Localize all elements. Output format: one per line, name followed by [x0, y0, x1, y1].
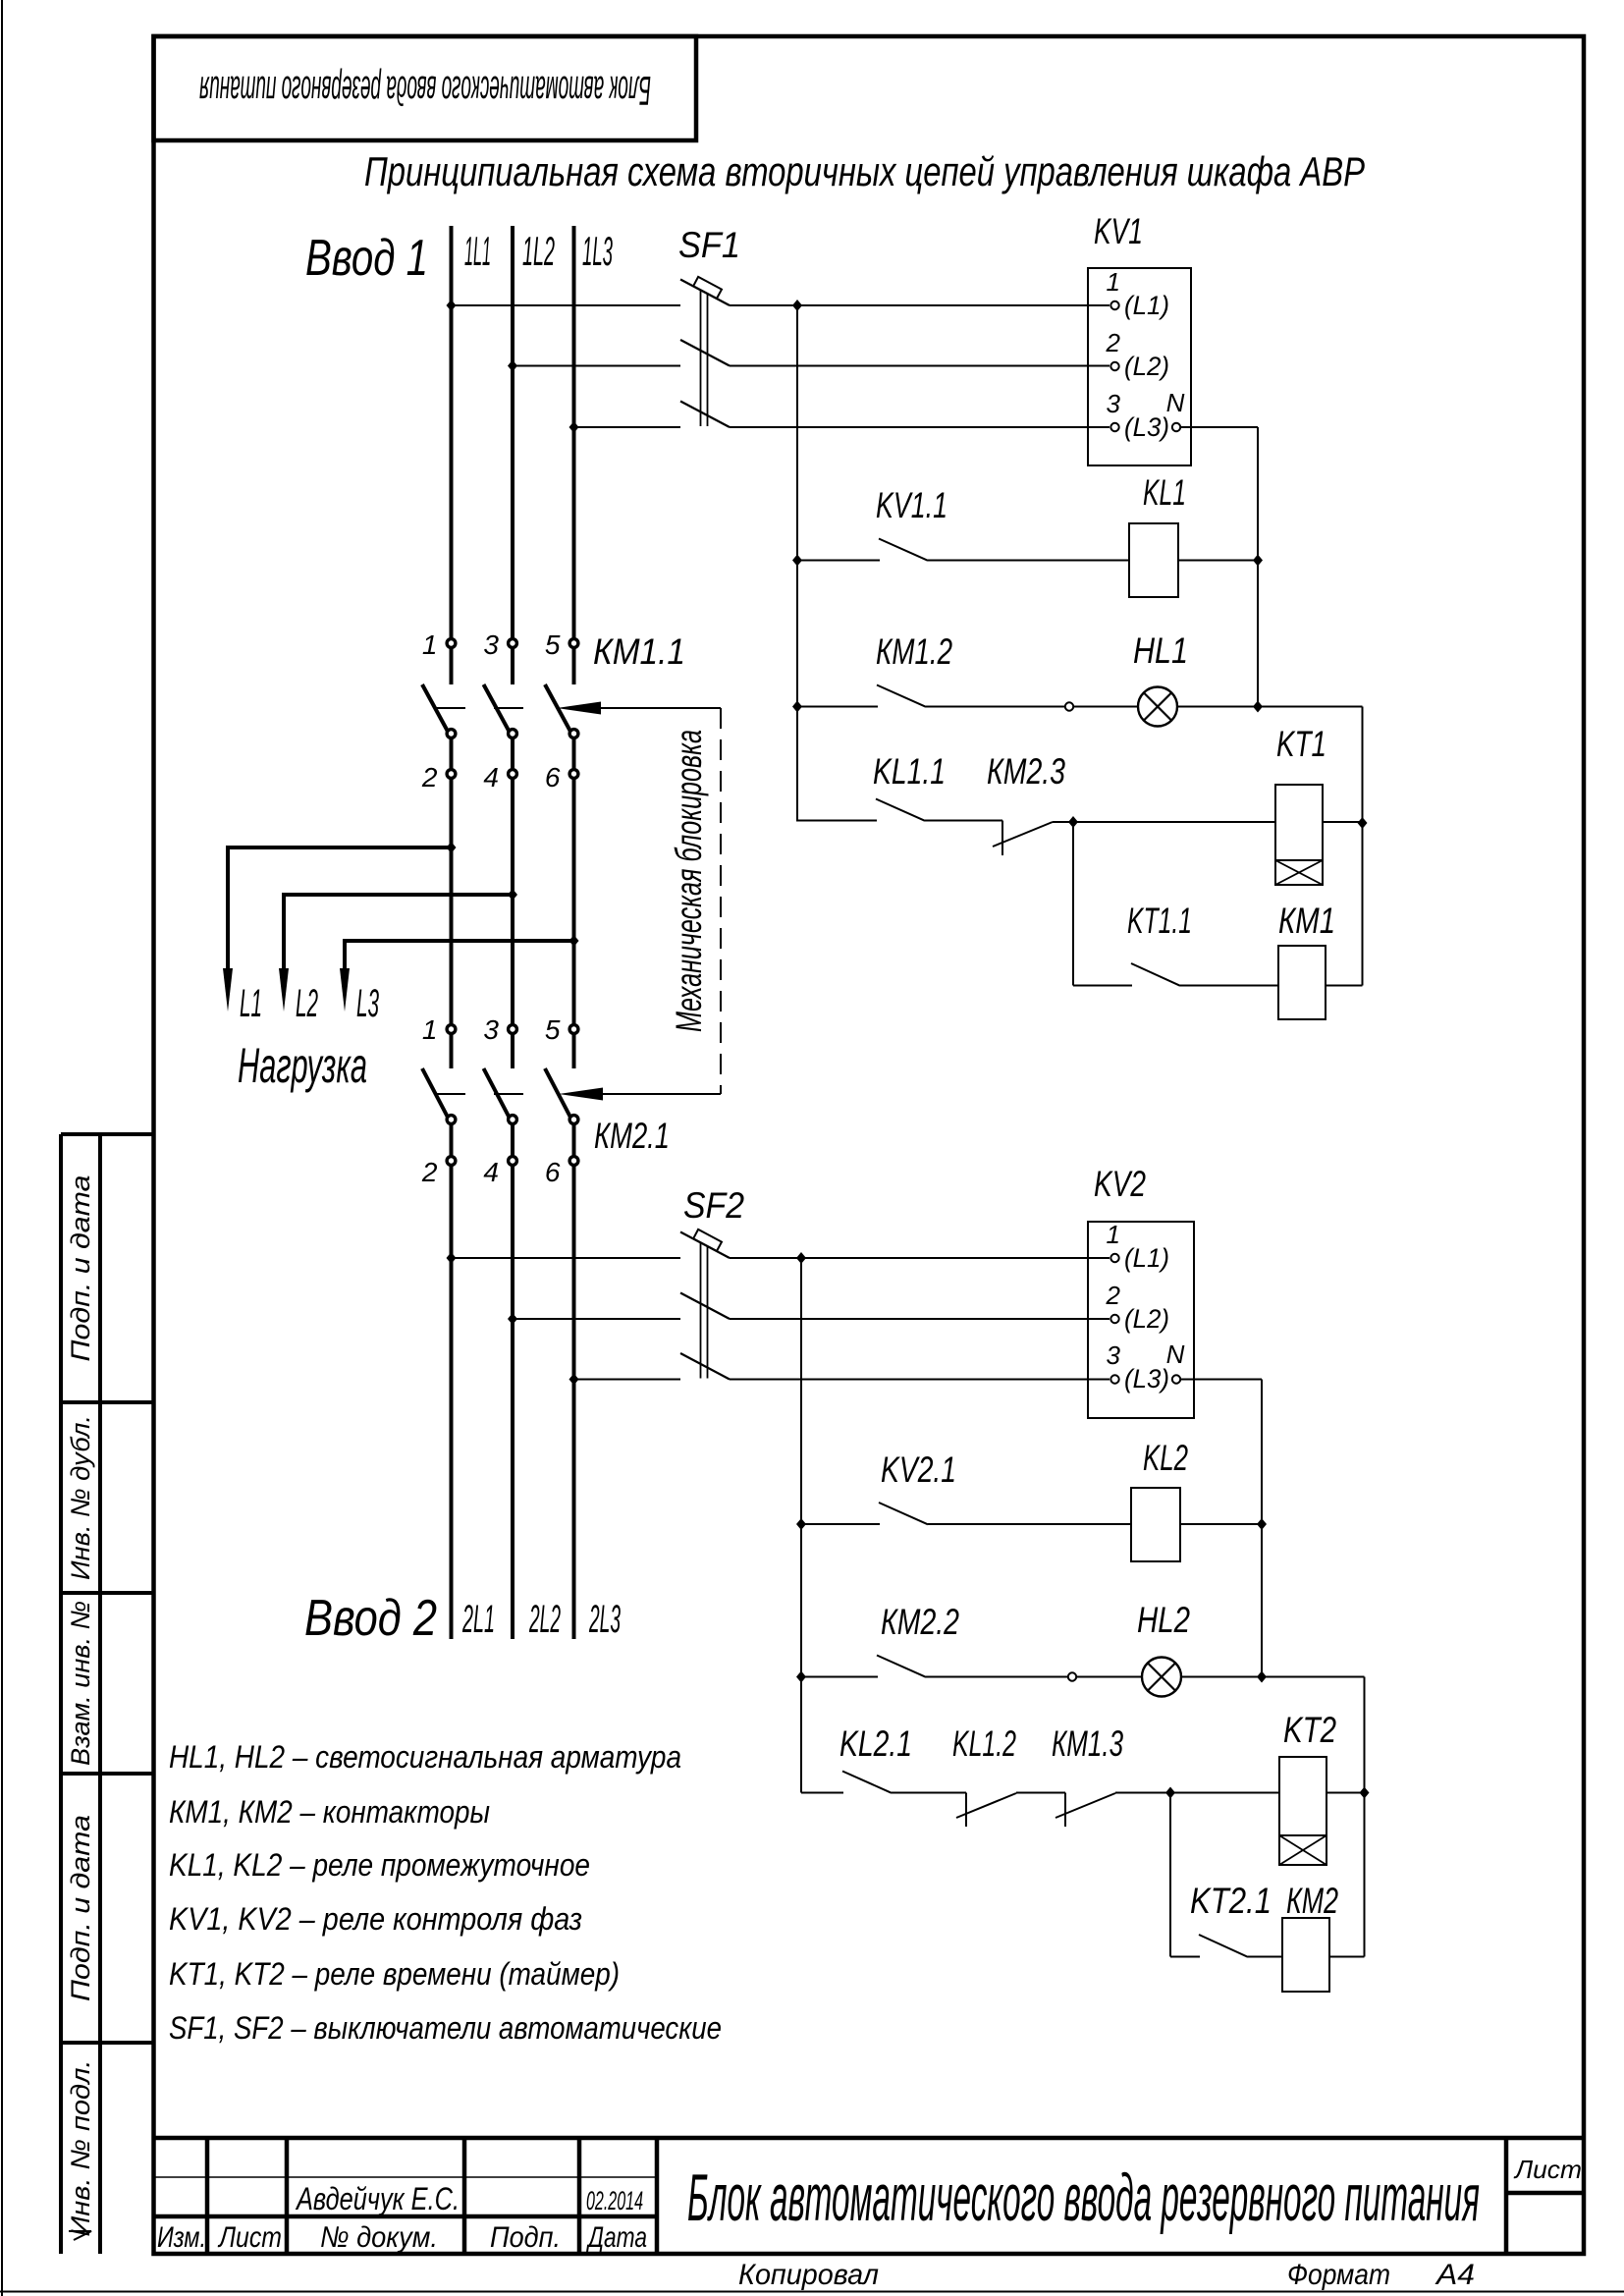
wire KV1.1 to relay coil KL1	[928, 560, 1129, 562]
wire left rail upper (L1 down to KL1.1 row)	[796, 305, 798, 822]
svg-text:KT1, KT2 – реле времени (тайме: KT1, KT2 – реле времени (таймер)	[169, 1956, 620, 1992]
svg-text:Подп. и дата: Подп. и дата	[66, 1815, 95, 2001]
svg-text:Подп.: Подп.	[490, 2221, 561, 2254]
svg-text:KL1.1: KL1.1	[873, 751, 946, 792]
svg-text:Формат: Формат	[1287, 2259, 1390, 2291]
wire left rail to contact KM1.2	[797, 706, 878, 708]
svg-text:HL1: HL1	[1133, 630, 1188, 671]
wire load tap L3 vertical	[343, 939, 347, 970]
wire KT2.1 to contactor coil KM2	[1248, 1956, 1282, 1958]
svg-text:Блок автоматического ввода рез: Блок автоматического ввода резервного пи…	[687, 2160, 1480, 2235]
node bus2L1/SF2 junction	[447, 1252, 457, 1264]
contactor KM2.1 pole3 terminal rings	[569, 1025, 578, 1034]
svg-text:КМ1.2: КМ1.2	[876, 631, 952, 672]
svg-text:4: 4	[483, 1157, 499, 1187]
svg-text:Подп. и дата: Подп. и дата	[66, 1175, 95, 1362]
svg-text:KV1: KV1	[1094, 211, 1143, 251]
mechanical interlock line upper	[599, 707, 721, 709]
SF1 linkage bars	[700, 291, 702, 426]
mechanical interlock arrow lower	[559, 1088, 603, 1101]
svg-text:02.2014: 02.2014	[586, 2186, 643, 2215]
SF2 pole3 blade	[680, 1353, 730, 1380]
wire bus1L2 to SF1	[513, 365, 680, 367]
svg-text:(L1): (L1)	[1124, 1243, 1169, 1273]
svg-text:KL1.2: KL1.2	[952, 1723, 1016, 1764]
wire SF2 to KV2 pin1	[730, 1257, 1110, 1259]
node right rail KT1 row	[1358, 817, 1368, 829]
svg-text:КМ1, КМ2 – контакторы: КМ1, КМ2 – контакторы	[169, 1794, 490, 1830]
contact KM2.3 blade	[993, 822, 1053, 847]
node right rail HL1 row	[1253, 701, 1263, 713]
node left rail KM2.2 row	[796, 1671, 806, 1683]
svg-text:KL2.1: KL2.1	[839, 1723, 912, 1764]
svg-text:2: 2	[1106, 1281, 1121, 1310]
contact KM1.2 blade	[877, 685, 926, 707]
svg-text:3: 3	[1107, 389, 1121, 418]
left strip inner divider	[98, 1134, 102, 2254]
wire SF2 to KV2 pin3	[730, 1379, 1110, 1381]
svg-text:KT1: KT1	[1276, 724, 1326, 764]
wire KL1 to right rail	[1178, 560, 1258, 562]
contact KL1.1 blade	[876, 799, 925, 821]
KV2 pin N	[1172, 1375, 1180, 1383]
svg-text:6: 6	[545, 1157, 561, 1187]
wire left rail to contact KM2.2	[801, 1676, 878, 1678]
node bus1L2/SF1 junction	[508, 360, 517, 372]
wire KT1 branch down to KT1.1 row	[1072, 822, 1074, 986]
left strip divider y=1622	[61, 1591, 154, 1595]
svg-text:5: 5	[545, 1014, 561, 1045]
svg-text:2: 2	[421, 762, 438, 793]
SF2 pole2 blade	[680, 1293, 730, 1320]
svg-text:2L1: 2L1	[462, 1598, 495, 1641]
node bus2L2/SF2 junction	[508, 1313, 517, 1325]
svg-text:KL1, KL2 – реле промежуточное: KL1, KL2 – реле промежуточное	[169, 1847, 590, 1883]
terminal circle on HL1 wire	[1065, 702, 1073, 710]
svg-text:1: 1	[1107, 1220, 1120, 1249]
relay coil KL2	[1131, 1488, 1180, 1561]
svg-text:Механическая блокировка: Механическая блокировка	[669, 730, 709, 1032]
wire load tap L1 horizontal	[228, 846, 452, 849]
wire KL2 to right rail	[1180, 1523, 1262, 1525]
svg-text:1: 1	[422, 629, 438, 660]
lamp HL2	[1142, 1658, 1181, 1697]
KV2 pin 1	[1110, 1254, 1118, 1262]
svg-text:КМ1: КМ1	[1278, 901, 1335, 941]
svg-text:(L1): (L1)	[1124, 291, 1169, 320]
contactor KM1.1 pole1 terminal rings	[447, 639, 456, 648]
relay coil KL1	[1129, 523, 1178, 597]
wire KL1.1 to contact KM2.3	[925, 820, 1002, 822]
wire HL1 to right rail	[1177, 706, 1363, 708]
contactor KM2.1 pole1 terminal rings	[447, 1025, 456, 1034]
node right rail KL1 row	[1253, 555, 1263, 567]
svg-text:KV1, KV2 – реле контроля фаз: KV1, KV2 – реле контроля фаз	[169, 1901, 582, 1937]
node right rail HL2 row	[1257, 1671, 1267, 1683]
node left rail KV1.1 row	[792, 555, 802, 567]
svg-text:Авдейчук Е.С.: Авдейчук Е.С.	[295, 2181, 460, 2216]
wire KV2 N to right rail	[1180, 1379, 1262, 1381]
load arrow L2	[279, 968, 289, 1011]
title block middle thick line	[154, 2214, 658, 2219]
svg-text:КМ2.2: КМ2.2	[881, 1602, 959, 1642]
wire bus2L3 to SF2	[574, 1379, 681, 1381]
svg-text:KT2: KT2	[1283, 1710, 1336, 1750]
wire KM2.3 to timer coil KT1	[1053, 821, 1275, 823]
wire KM2 to right rail	[1329, 1956, 1365, 1958]
svg-text:KT1.1: KT1.1	[1127, 901, 1192, 941]
SF1 release rectangle	[693, 277, 722, 299]
wire KT1.1 to contactor coil KM1	[1180, 985, 1278, 987]
lamp HL1	[1138, 687, 1177, 727]
svg-text:N: N	[1166, 1339, 1185, 1369]
svg-text:Взам. инв. №: Взам. инв. №	[66, 1601, 95, 1766]
svg-text:6: 6	[545, 762, 561, 793]
contact KM1.3 stop bar	[1064, 1793, 1066, 1828]
svg-text:1L2: 1L2	[522, 228, 555, 274]
svg-text:L2: L2	[296, 982, 318, 1025]
node bus1L1/SF1 junction	[447, 300, 457, 311]
wire right rail lower (N down to HL2 row)	[1261, 1380, 1263, 1677]
left strip divider y=1428	[61, 1400, 154, 1404]
svg-text:L1: L1	[240, 982, 262, 1025]
wire load tap L2 vertical	[282, 893, 286, 970]
wire KM1 to right rail	[1326, 985, 1363, 987]
node bus1L3/SF1 junction	[569, 421, 579, 433]
contactor KM2.1 pole3 blade	[545, 1068, 572, 1121]
svg-text:Дата: Дата	[586, 2221, 647, 2254]
KV1 pin 2	[1110, 362, 1118, 370]
contactor KM1.1 pole2 blade	[484, 684, 512, 735]
breaker SF2	[680, 1230, 730, 1380]
wire KM1.2 to lamp HL1	[926, 706, 1138, 708]
contactor coil KM1	[1278, 946, 1326, 1019]
svg-text:2: 2	[421, 1157, 438, 1187]
svg-text:L3: L3	[356, 982, 379, 1025]
svg-text:SF1: SF1	[678, 225, 740, 265]
left strip divider y=1806	[61, 1772, 154, 1776]
breaker SF1	[680, 277, 730, 427]
svg-text:Лист: Лист	[217, 2221, 282, 2254]
svg-text:Инв. № дубл.: Инв. № дубл.	[66, 1415, 95, 1580]
svg-text:1: 1	[422, 1014, 438, 1045]
contactor KM2.1 pole2 terminal rings	[509, 1025, 517, 1034]
wire bus1L1 to SF1	[452, 304, 681, 306]
left strip divider y=2080	[61, 2041, 154, 2045]
svg-text:KL1: KL1	[1143, 472, 1186, 513]
wire KV2.1 to relay coil KL2	[928, 1523, 1131, 1525]
mechanical interlock line lower	[601, 1093, 721, 1095]
svg-text:Ввод 1: Ввод 1	[305, 230, 428, 287]
KV1 pin 3	[1110, 423, 1118, 431]
svg-text:3: 3	[483, 1014, 499, 1045]
svg-text:КМ2.1: КМ2.1	[594, 1116, 670, 1156]
terminal circle on HL2 wire	[1068, 1672, 1076, 1680]
svg-text:N: N	[1166, 388, 1185, 417]
SF2 release rectangle	[693, 1230, 722, 1251]
wire KL1.2 to contact KM1.3	[1016, 1792, 1065, 1794]
node left rail KM1.2 row	[792, 701, 802, 713]
wire KL2.1 to contact KL1.2	[892, 1792, 966, 1794]
node bus junction load L1	[447, 842, 457, 853]
KV1 pin 1	[1110, 301, 1118, 309]
wire SF2 to KV2 pin2	[730, 1318, 1110, 1320]
wire KM1.3 to timer coil KT2	[1115, 1792, 1279, 1794]
wire KT2 to right rail	[1326, 1792, 1365, 1794]
sheet bottom edge line	[0, 2291, 1624, 2293]
load arrow L3	[340, 968, 350, 1011]
wire SF1 to KV1 pin3	[730, 426, 1110, 428]
contact KL2.1 blade	[842, 1772, 892, 1793]
contactor KM2.1 pole1 blade	[422, 1068, 450, 1121]
svg-text:№ докум.: № докум.	[320, 2221, 438, 2254]
node KT2 branch junction	[1165, 1787, 1175, 1799]
SF1 pole3 blade	[680, 402, 730, 428]
signature mark in left strip bottom box	[69, 2231, 91, 2240]
contactor KM1.1 pole2 terminal rings	[509, 639, 517, 648]
node left rail top junction	[792, 300, 802, 311]
wire right rail jog down to KT1 row	[1362, 707, 1364, 986]
title block divider x=473	[462, 2138, 467, 2254]
wire elbow to contact KT2.1	[1170, 1956, 1200, 1958]
svg-text:(L2): (L2)	[1124, 1304, 1169, 1334]
SF2 linkage bars	[700, 1243, 702, 1379]
svg-text:2L2: 2L2	[529, 1598, 561, 1641]
node lower left rail top junction	[796, 1252, 806, 1264]
wire left rail elbow to contact KL2.1	[801, 1792, 843, 1794]
bus 1L1 vertical line	[450, 226, 454, 684]
wire right rail upper (N down to HL1 row)	[1257, 427, 1259, 707]
svg-text:Инв. № подл.: Инв. № подл.	[66, 2060, 95, 2237]
mechanical interlock dashed vertical	[720, 708, 722, 1094]
wire load tap L1 vertical	[226, 846, 230, 970]
wire load tap L2 horizontal	[284, 893, 513, 897]
svg-text:HL2: HL2	[1137, 1600, 1190, 1640]
wire right rail jog down to KT2 row	[1364, 1677, 1366, 1957]
wire elbow to contact KT1.1	[1073, 985, 1132, 987]
svg-text:Нагрузка: Нагрузка	[238, 1038, 367, 1093]
wire HL2 to right rail	[1181, 1676, 1365, 1678]
contactor coil KM2	[1282, 1918, 1329, 1992]
node right rail KT2 row	[1360, 1787, 1370, 1799]
svg-text:SF2: SF2	[683, 1185, 744, 1226]
contactor KM1.1 pole3 blade	[545, 684, 572, 735]
svg-text:KT2.1: KT2.1	[1190, 1881, 1272, 1921]
bus 1L3 vertical line	[572, 226, 576, 684]
wire left rail to contact KV2.1	[801, 1523, 880, 1525]
svg-text:Ввод 2: Ввод 2	[304, 1590, 437, 1647]
contact KM2.2 blade	[877, 1656, 926, 1677]
left strip outer line	[59, 1134, 63, 2254]
svg-text:Копировал: Копировал	[738, 2259, 879, 2291]
contactor KM1.1 pole1 blade	[422, 684, 450, 735]
wire KT2 branch down to KT2.1 row	[1169, 1793, 1171, 1957]
svg-text:KL2: KL2	[1143, 1438, 1188, 1478]
svg-text:3: 3	[483, 629, 499, 660]
left strip divider y=1155	[61, 1132, 154, 1136]
svg-text:KV2.1: KV2.1	[881, 1449, 956, 1490]
svg-text:КМ1.1: КМ1.1	[593, 631, 685, 672]
node left rail KV2.1 row	[796, 1518, 806, 1530]
wire bus2L2 to SF2	[513, 1318, 680, 1320]
mechanical interlock dashes lower	[436, 1093, 527, 1095]
node bus2L3/SF2 junction	[569, 1374, 579, 1386]
svg-text:5: 5	[545, 629, 561, 660]
node bus junction load L3	[569, 935, 579, 947]
svg-text:2: 2	[1106, 328, 1121, 357]
svg-text:1L1: 1L1	[464, 228, 491, 274]
contactor KM1.1 pole3 terminal rings	[569, 639, 578, 648]
svg-text:Блок автоматического ввода рез: Блок автоматического ввода резервного пи…	[199, 68, 651, 114]
contact KM2.3 stop bar	[1001, 821, 1003, 856]
SF1 pole1 blade	[680, 280, 730, 306]
wire SF1 to KV1 pin1	[730, 304, 1110, 306]
svg-text:KV1.1: KV1.1	[876, 485, 947, 525]
wire bus1L3 to SF1	[574, 426, 681, 428]
svg-text:SF1, SF2 – выключатели автомат: SF1, SF2 – выключатели автоматические	[169, 2010, 722, 2046]
svg-text:HL1, HL2 – светосигнальная арм: HL1, HL2 – светосигнальная арматура	[169, 1739, 681, 1775]
svg-text:(L2): (L2)	[1124, 352, 1169, 381]
svg-text:(L3): (L3)	[1124, 1364, 1169, 1394]
mechanical interlock dashes upper	[436, 707, 527, 709]
wire KV1 N to right rail	[1180, 426, 1258, 428]
mechanical interlock arrow upper	[557, 702, 601, 715]
wire left rail elbow to contact KL1.1	[797, 820, 877, 822]
node right rail KL2 row	[1257, 1518, 1267, 1530]
svg-text:1: 1	[1107, 267, 1120, 297]
svg-text:КМ2.3: КМ2.3	[987, 751, 1065, 792]
contact KL1.2 stop bar	[965, 1793, 967, 1828]
sheet left edge line	[1, 0, 3, 2296]
wire load tap L3 horizontal	[345, 939, 574, 943]
svg-text:(L3): (L3)	[1124, 412, 1169, 442]
top stamp box	[154, 36, 697, 140]
title block divider x=669	[655, 2138, 660, 2254]
contact KL1.2 blade	[956, 1793, 1016, 1818]
contact KV1.1 blade	[879, 539, 928, 561]
Лист cell divider	[1506, 2191, 1584, 2196]
timer relay KT1 coil	[1275, 785, 1323, 885]
svg-text:1L3: 1L3	[582, 228, 613, 274]
bus 1L2 vertical line	[511, 226, 514, 684]
svg-text:KV2: KV2	[1094, 1164, 1146, 1204]
svg-text:КМ2: КМ2	[1286, 1881, 1338, 1921]
svg-text:Принципиальная схема вторичных: Принципиальная схема вторичных цепей упр…	[364, 148, 1365, 194]
wire left rail lower (L1 down to KL2.1 row)	[800, 1258, 802, 1793]
wire left rail to contact KV1.1	[797, 560, 880, 562]
KV2 pin 3	[1110, 1375, 1118, 1383]
svg-text:А4: А4	[1435, 2259, 1475, 2291]
contactor KM2.1 pole2 blade	[484, 1068, 512, 1121]
wire bus2L1 to SF2	[452, 1257, 681, 1259]
relay KV1 box	[1088, 268, 1191, 465]
load arrow L1	[223, 968, 233, 1011]
svg-text:КМ1.3: КМ1.3	[1052, 1723, 1123, 1764]
contact KV2.1 blade	[879, 1503, 928, 1524]
contact KT2.1 blade	[1199, 1935, 1248, 1957]
wire SF1 to KV1 pin2	[730, 365, 1110, 367]
svg-text:Изм.: Изм.	[157, 2221, 206, 2254]
SF1 pole2 blade	[680, 340, 730, 366]
contact KM1.3 blade	[1056, 1793, 1115, 1818]
wire KT1 to right rail	[1323, 821, 1363, 823]
svg-text:4: 4	[483, 762, 499, 793]
wire KM2.2 to lamp HL2	[926, 1676, 1142, 1678]
SF2 pole1 blade	[680, 1232, 730, 1259]
KV1 pin N	[1172, 423, 1180, 431]
svg-text:Лист: Лист	[1513, 2155, 1582, 2184]
title block divider x=292	[285, 2138, 290, 2254]
title block thin line	[154, 2176, 658, 2178]
svg-text:3: 3	[1107, 1340, 1121, 1370]
title block divider x=590	[577, 2138, 582, 2254]
title block top line	[154, 2136, 1585, 2141]
contact KT1.1 blade	[1131, 963, 1180, 986]
svg-text:2L3: 2L3	[589, 1598, 621, 1641]
node bus junction load L2	[508, 889, 517, 901]
timer relay KT2 coil	[1279, 1757, 1326, 1865]
relay KV2 box	[1088, 1222, 1194, 1418]
KV2 pin 2	[1110, 1315, 1118, 1323]
node KT1 branch junction	[1068, 816, 1078, 828]
title block divider x=1534	[1504, 2138, 1509, 2254]
title block divider x=211	[205, 2138, 210, 2254]
